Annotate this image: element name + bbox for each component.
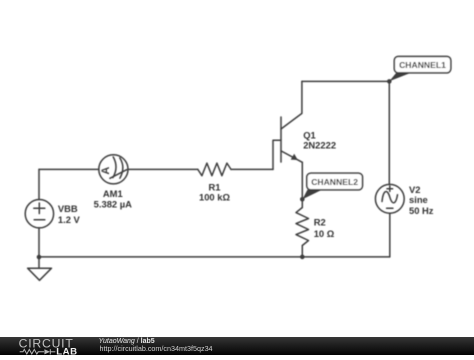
wire main horizontal (VBB top to base jog): [39, 168, 273, 170]
label R1 value: [199, 181, 230, 202]
svg-text:LAB: LAB: [56, 346, 77, 355]
svg-text:1.2 V: 1.2 V: [58, 214, 81, 225]
svg-text:5.382 µA: 5.382 µA: [94, 199, 132, 210]
node dot CHANNEL2: [300, 197, 305, 202]
svg-text:A: A: [100, 167, 112, 175]
wire left vertical (node to VBB and ground): [38, 169, 40, 257]
flag CHANNEL1: [389, 56, 451, 81]
svg-text:CHANNEL2: CHANNEL2: [311, 177, 358, 187]
transistor Q1: [281, 81, 302, 162]
wire bottom rail: [39, 256, 390, 258]
wire V2 top: [388, 81, 390, 184]
footer bar: [0, 337, 474, 355]
node dot ground junction: [37, 255, 42, 260]
node dot CHANNEL1: [387, 79, 392, 84]
wire emitter vertical: [301, 162, 303, 257]
logo wire resistor and diode: [20, 349, 56, 354]
ammeter AM1: [99, 155, 128, 184]
label Q1 value: [303, 129, 336, 150]
label AM1 value: [94, 188, 132, 210]
svg-text:10 Ω: 10 Ω: [314, 228, 335, 239]
ground: [28, 257, 52, 280]
resistor R1: [198, 163, 231, 176]
svg-text:sine: sine: [409, 194, 428, 205]
wire top rail: [302, 80, 389, 82]
wire V2 bottom: [389, 213, 391, 257]
label VBB value: [58, 203, 81, 225]
svg-text:CHANNEL1: CHANNEL1: [399, 60, 446, 70]
voltage source VBB: [25, 200, 53, 228]
flag CHANNEL2: [303, 173, 363, 199]
voltage source V2: [375, 184, 404, 213]
svg-text:VBB: VBB: [58, 203, 78, 214]
svg-text:AM1: AM1: [103, 188, 123, 199]
resistor R2: [296, 208, 309, 246]
svg-text:50 Hz: 50 Hz: [409, 205, 434, 216]
svg-text:R2: R2: [314, 216, 326, 227]
label V2 value: [409, 184, 434, 216]
node dot R2 bottom: [300, 255, 305, 260]
svg-text:2N2222: 2N2222: [303, 140, 336, 151]
label R2 value: [314, 216, 335, 239]
wire base jog: [273, 140, 281, 169]
svg-text:http://circuitlab.com/cn34mt3f: http://circuitlab.com/cn34mt3f5qz34: [100, 344, 213, 353]
svg-text:100 kΩ: 100 kΩ: [199, 191, 230, 202]
